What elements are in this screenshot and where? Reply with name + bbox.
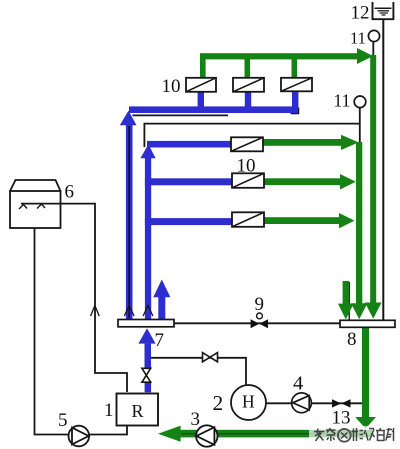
svg-text:12: 12 <box>351 3 370 24</box>
svg-text:1: 1 <box>104 400 114 421</box>
svg-text:11: 11 <box>334 91 351 111</box>
svg-text:H: H <box>242 392 255 412</box>
svg-text:2: 2 <box>213 391 224 415</box>
svg-text:6: 6 <box>65 182 75 203</box>
svg-text:10: 10 <box>162 76 181 97</box>
svg-text:4: 4 <box>293 373 303 395</box>
svg-text:R: R <box>132 401 144 421</box>
svg-text:13: 13 <box>332 408 351 429</box>
svg-text:10: 10 <box>237 156 256 177</box>
svg-text:9: 9 <box>255 294 265 315</box>
svg-text:11: 11 <box>350 29 366 48</box>
svg-text:8: 8 <box>347 329 357 350</box>
svg-text:3: 3 <box>191 409 201 430</box>
svg-text:5: 5 <box>58 410 68 431</box>
